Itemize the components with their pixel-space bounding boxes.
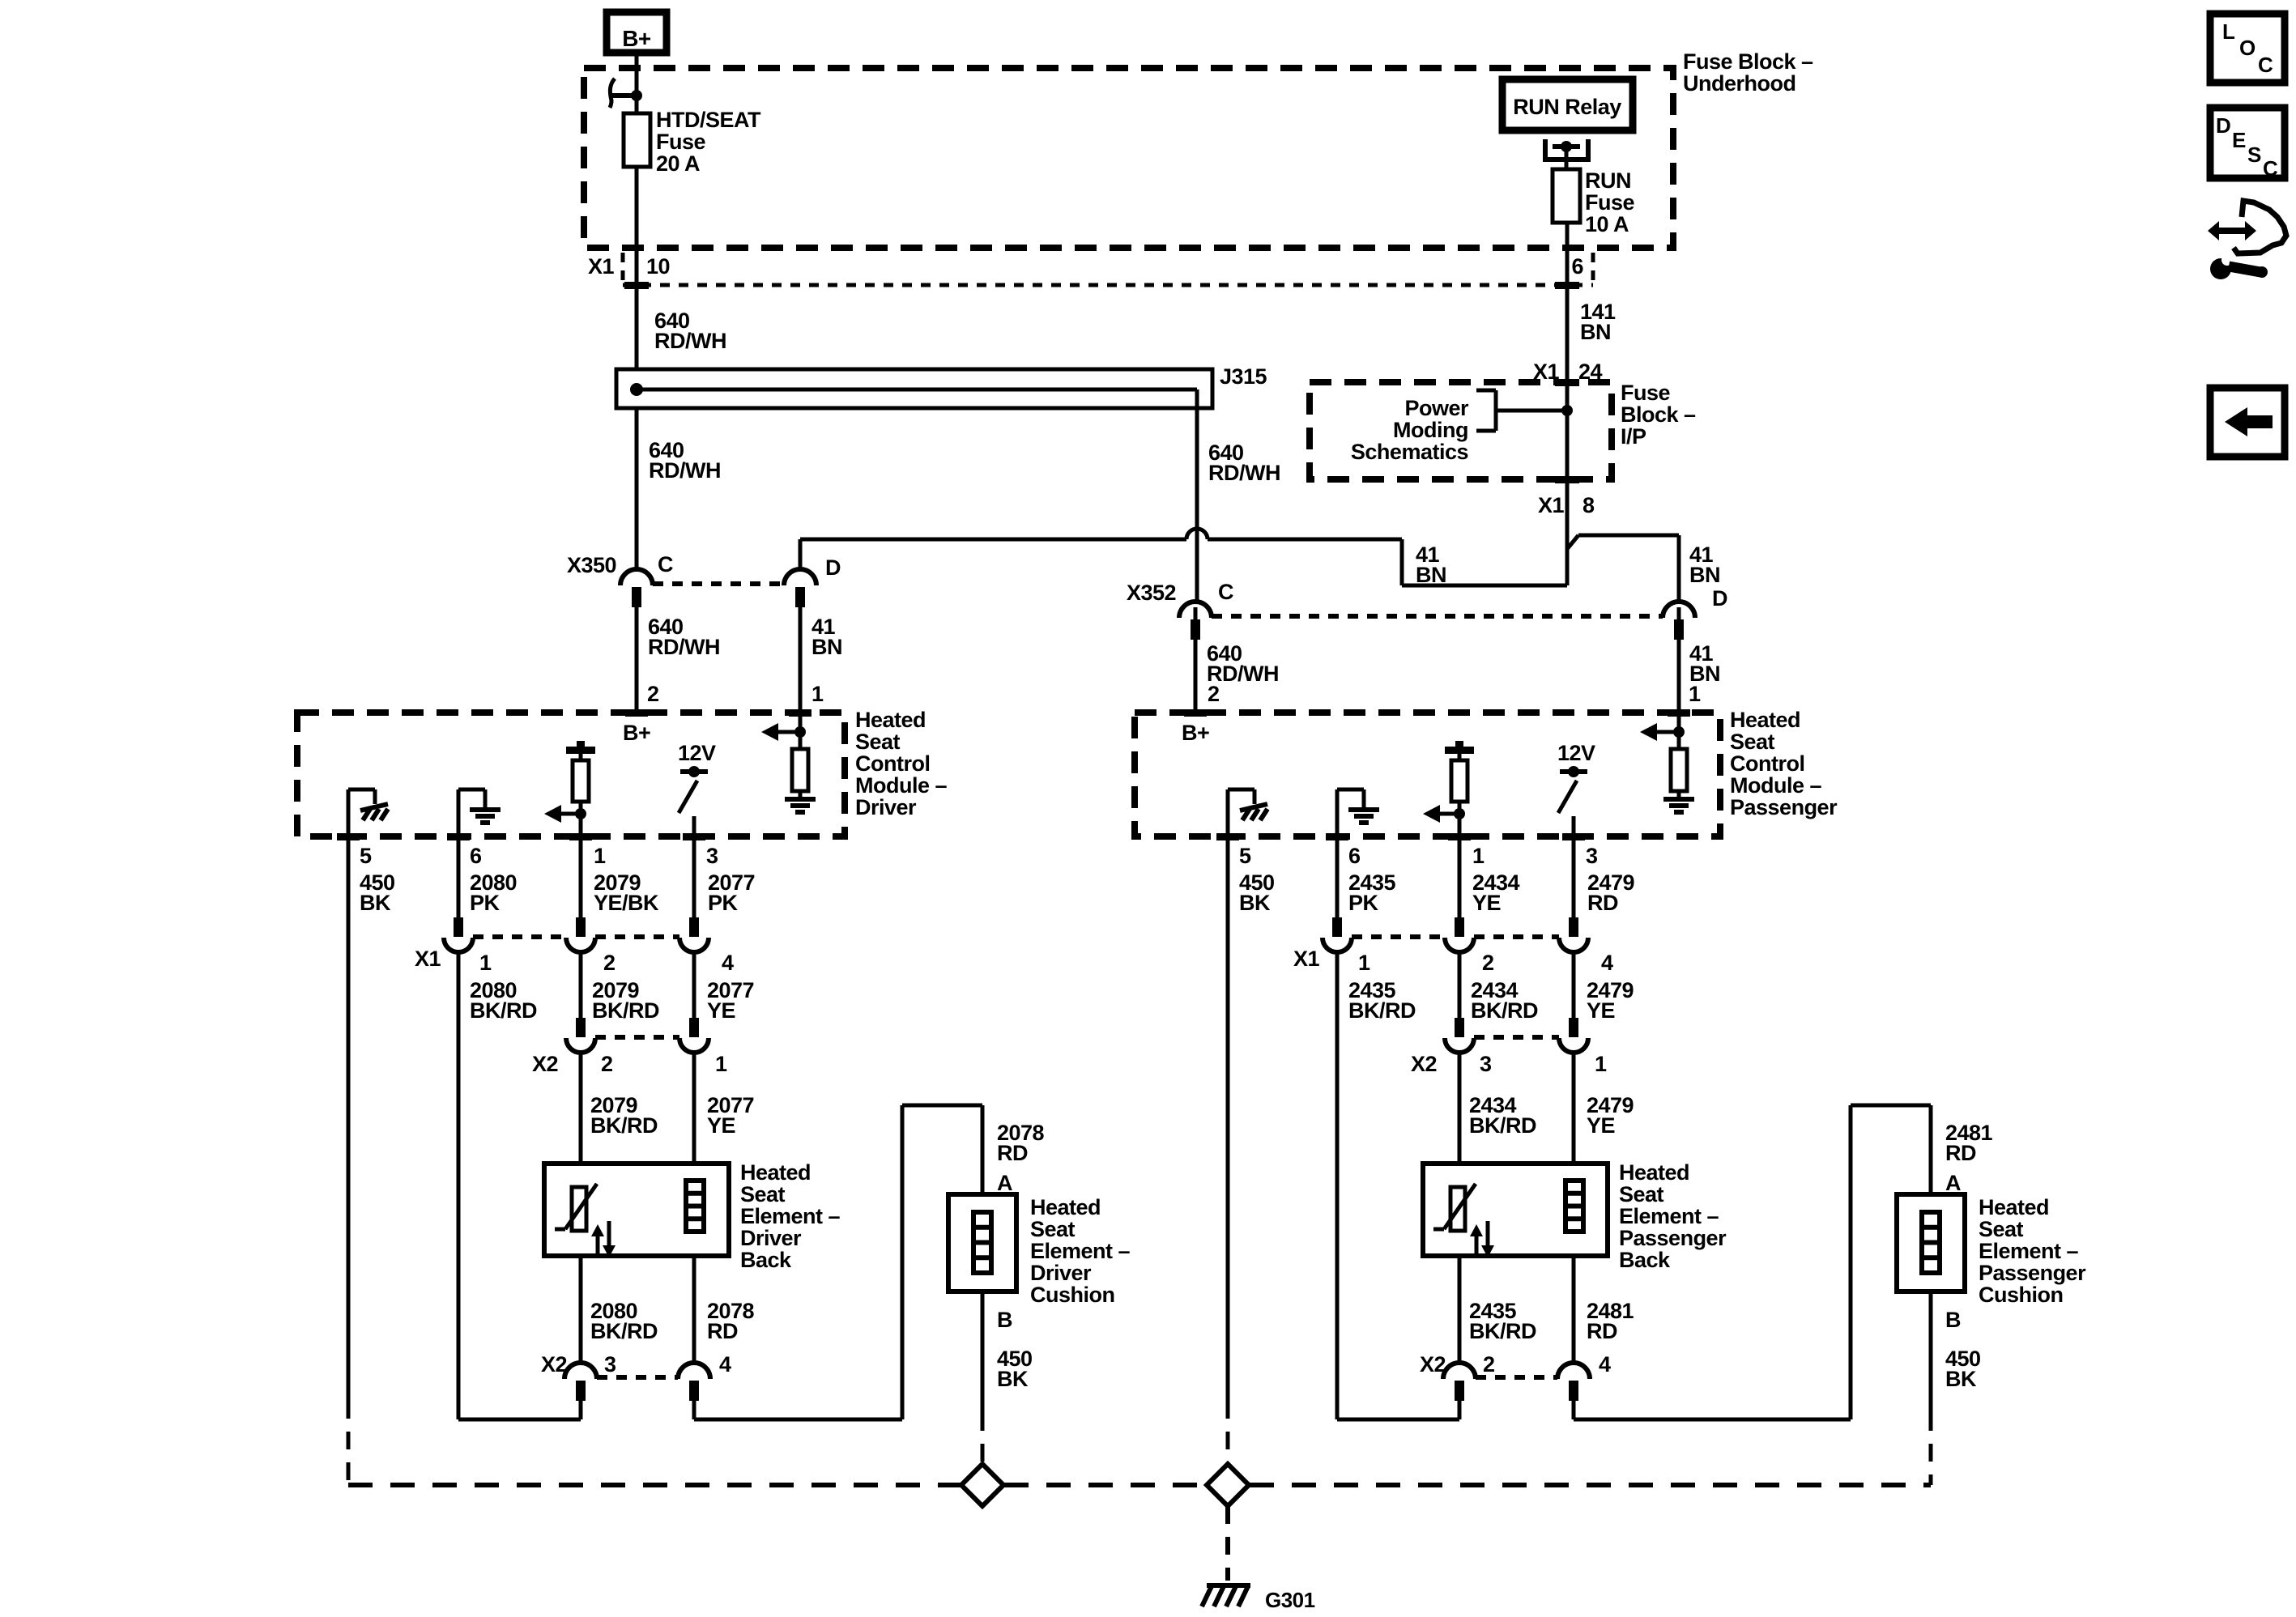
svg-text:X350: X350: [567, 553, 616, 577]
svg-text:Module –: Module –: [855, 773, 947, 798]
svg-text:B+: B+: [623, 721, 650, 745]
svg-text:BK/RD: BK/RD: [590, 1113, 658, 1138]
svg-text:O: O: [2239, 36, 2256, 60]
svg-text:20 A: 20 A: [656, 151, 700, 176]
svg-text:2: 2: [1208, 682, 1220, 706]
svg-text:C: C: [1218, 580, 1233, 604]
svg-text:Seat: Seat: [1979, 1217, 2024, 1241]
svg-text:Control: Control: [855, 751, 930, 776]
svg-text:Element –: Element –: [740, 1204, 841, 1228]
svg-text:YE: YE: [707, 998, 735, 1023]
svg-text:BK/RD: BK/RD: [1469, 1113, 1536, 1138]
svg-text:BK/RD: BK/RD: [1348, 998, 1416, 1023]
svg-text:D: D: [2216, 113, 2230, 138]
svg-text:Moding: Moding: [1393, 418, 1468, 442]
svg-text:RD: RD: [707, 1319, 738, 1343]
svg-text:G301: G301: [1265, 1588, 1315, 1612]
svg-text:3: 3: [604, 1352, 616, 1377]
svg-text:6: 6: [470, 844, 482, 868]
svg-text:J315: J315: [1220, 364, 1267, 389]
svg-text:4: 4: [1601, 951, 1613, 975]
svg-text:Underhood: Underhood: [1683, 71, 1795, 96]
svg-text:6: 6: [1571, 254, 1583, 279]
svg-text:D: D: [825, 555, 841, 580]
svg-text:1: 1: [479, 951, 492, 975]
svg-text:PK: PK: [1348, 891, 1379, 915]
svg-text:Element –: Element –: [1979, 1239, 2079, 1263]
svg-text:Fuse: Fuse: [656, 130, 706, 154]
svg-text:Fuse Block –: Fuse Block –: [1683, 49, 1813, 74]
svg-text:RD/WH: RD/WH: [1208, 461, 1280, 485]
svg-text:Heated: Heated: [1979, 1195, 2049, 1219]
svg-text:RD/WH: RD/WH: [648, 635, 720, 659]
svg-text:Passenger: Passenger: [1730, 795, 1838, 819]
svg-text:Driver: Driver: [1030, 1261, 1092, 1285]
svg-text:RD: RD: [1587, 891, 1618, 915]
svg-text:Power: Power: [1404, 396, 1469, 420]
svg-text:HTD/SEAT: HTD/SEAT: [656, 108, 761, 132]
svg-text:Passenger: Passenger: [1979, 1261, 2086, 1285]
svg-text:Fuse: Fuse: [1621, 381, 1671, 405]
svg-text:YE: YE: [1472, 891, 1501, 915]
svg-text:BK/RD: BK/RD: [1469, 1319, 1536, 1343]
svg-text:Schematics: Schematics: [1351, 440, 1468, 464]
svg-text:B+: B+: [1182, 721, 1209, 745]
svg-text:1: 1: [1472, 844, 1485, 868]
svg-text:1: 1: [715, 1052, 727, 1076]
svg-text:BK/RD: BK/RD: [592, 998, 659, 1023]
svg-text:BK/RD: BK/RD: [1471, 998, 1538, 1023]
svg-text:Driver: Driver: [740, 1226, 802, 1250]
svg-text:Passenger: Passenger: [1619, 1226, 1727, 1250]
svg-text:Heated: Heated: [1730, 708, 1800, 732]
svg-text:2: 2: [601, 1052, 613, 1076]
svg-text:X2: X2: [1411, 1052, 1437, 1076]
svg-text:X1: X1: [415, 947, 441, 971]
svg-text:2: 2: [1482, 951, 1494, 975]
svg-text:PK: PK: [470, 891, 501, 915]
svg-text:I/P: I/P: [1621, 424, 1646, 449]
svg-text:Seat: Seat: [1730, 730, 1775, 754]
svg-text:5: 5: [1239, 844, 1251, 868]
svg-text:Cushion: Cushion: [1030, 1283, 1115, 1307]
svg-text:1: 1: [1358, 951, 1370, 975]
svg-text:BK: BK: [360, 891, 391, 915]
svg-text:A: A: [1945, 1171, 1961, 1195]
svg-text:RUN Relay: RUN Relay: [1513, 95, 1621, 119]
svg-text:X2: X2: [532, 1052, 558, 1076]
svg-text:Heated: Heated: [1030, 1195, 1101, 1219]
svg-text:Driver: Driver: [855, 795, 917, 819]
svg-text:Back: Back: [740, 1248, 792, 1272]
svg-text:BN: BN: [1416, 563, 1446, 587]
svg-text:4: 4: [1599, 1352, 1611, 1377]
svg-text:B: B: [1945, 1308, 1961, 1332]
svg-text:2: 2: [647, 682, 659, 706]
svg-text:3: 3: [1586, 844, 1598, 868]
svg-text:S: S: [2247, 143, 2261, 167]
svg-text:Control: Control: [1730, 751, 1804, 776]
svg-text:Seat: Seat: [1619, 1182, 1664, 1206]
svg-text:RD/WH: RD/WH: [654, 329, 726, 353]
svg-text:2: 2: [603, 951, 616, 975]
svg-text:4: 4: [719, 1352, 731, 1377]
svg-text:8: 8: [1582, 493, 1595, 517]
svg-text:12V: 12V: [678, 741, 716, 765]
svg-text:10: 10: [646, 254, 670, 279]
svg-text:Element –: Element –: [1030, 1239, 1131, 1263]
svg-text:BK: BK: [997, 1367, 1029, 1391]
svg-text:B: B: [997, 1308, 1012, 1332]
svg-text:BN: BN: [1689, 563, 1720, 587]
svg-text:YE: YE: [707, 1113, 735, 1138]
svg-text:C: C: [2258, 53, 2273, 77]
svg-text:X2: X2: [541, 1352, 567, 1377]
svg-text:RD: RD: [1587, 1319, 1617, 1343]
svg-text:YE: YE: [1587, 1113, 1615, 1138]
svg-text:L: L: [2222, 19, 2235, 44]
svg-text:10 A: 10 A: [1585, 212, 1629, 236]
svg-text:C: C: [2263, 156, 2278, 181]
svg-text:X2: X2: [1420, 1352, 1446, 1377]
svg-text:X352: X352: [1127, 581, 1176, 605]
svg-text:Seat: Seat: [855, 730, 901, 754]
svg-text:RUN: RUN: [1585, 168, 1631, 193]
svg-text:1: 1: [1689, 682, 1701, 706]
svg-text:A: A: [997, 1171, 1012, 1195]
svg-text:X1: X1: [1293, 947, 1320, 971]
svg-text:Fuse: Fuse: [1585, 190, 1635, 215]
svg-text:2: 2: [1483, 1352, 1495, 1377]
svg-text:Block –: Block –: [1621, 402, 1696, 427]
svg-text:1: 1: [811, 682, 824, 706]
svg-text:Heated: Heated: [855, 708, 926, 732]
svg-text:RD: RD: [997, 1141, 1028, 1165]
svg-text:1: 1: [1595, 1052, 1607, 1076]
svg-text:RD: RD: [1945, 1141, 1976, 1165]
svg-text:YE/BK: YE/BK: [594, 891, 659, 915]
svg-text:BN: BN: [811, 635, 842, 659]
svg-text:Module –: Module –: [1730, 773, 1821, 798]
svg-text:3: 3: [1480, 1052, 1492, 1076]
svg-text:3: 3: [706, 844, 718, 868]
svg-text:Seat: Seat: [1030, 1217, 1076, 1241]
svg-text:5: 5: [360, 844, 372, 868]
svg-text:BK: BK: [1239, 891, 1271, 915]
svg-text:Back: Back: [1619, 1248, 1671, 1272]
svg-text:YE: YE: [1587, 998, 1615, 1023]
svg-text:Element –: Element –: [1619, 1204, 1719, 1228]
svg-text:BN: BN: [1580, 320, 1611, 344]
svg-text:Cushion: Cushion: [1979, 1283, 2064, 1307]
svg-text:BK/RD: BK/RD: [470, 998, 537, 1023]
svg-text:RD/WH: RD/WH: [649, 458, 721, 483]
svg-text:X1: X1: [1538, 493, 1565, 517]
svg-text:6: 6: [1348, 844, 1361, 868]
svg-text:C: C: [658, 552, 673, 577]
svg-text:D: D: [1712, 586, 1727, 611]
svg-text:PK: PK: [708, 891, 739, 915]
svg-text:4: 4: [722, 951, 734, 975]
svg-text:Heated: Heated: [740, 1160, 811, 1185]
svg-text:X1: X1: [588, 254, 615, 279]
svg-text:E: E: [2232, 128, 2246, 152]
svg-text:12V: 12V: [1557, 741, 1595, 765]
svg-text:BK: BK: [1945, 1367, 1977, 1391]
svg-text:B+: B+: [622, 26, 651, 51]
svg-text:1: 1: [594, 844, 606, 868]
svg-text:Seat: Seat: [740, 1182, 786, 1206]
svg-text:BK/RD: BK/RD: [590, 1319, 658, 1343]
svg-text:Heated: Heated: [1619, 1160, 1689, 1185]
